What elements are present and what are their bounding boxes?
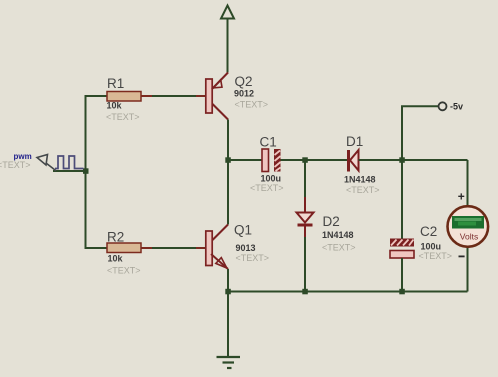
wire D2 bottom lead [304,225,306,237]
svg-text:-5v: -5v [450,102,463,112]
svg-text:<TEXT>: <TEXT> [0,160,31,170]
wire pwm input [53,170,86,172]
wire Q1 collector to mid node [227,160,229,225]
resistor R2 [107,243,206,253]
node C2 bottom junction [399,289,405,295]
svg-text:C2: C2 [420,224,437,239]
transistor Q2 (PNP 9012) [206,73,228,120]
wire C2 bottom lead [401,258,403,292]
svg-text:9013: 9013 [236,243,256,253]
pwm input pin symbol [37,155,56,171]
node mid junction [225,157,231,163]
svg-text:9012: 9012 [234,89,254,99]
wire -5v terminal branch [402,106,438,160]
voltmeter - label [459,255,465,257]
wire D1 to right corner [359,159,468,161]
wire D2 top lead [304,160,306,197]
resistor R1 [107,92,206,102]
node D2 top junction [302,157,308,163]
svg-text:100u: 100u [261,173,282,183]
svg-text:Q1: Q1 [234,223,252,238]
svg-text:<TEXT>: <TEXT> [346,185,380,195]
svg-text:<TEXT>: <TEXT> [107,266,141,276]
transistor Q1 (NPN 9013) [206,225,228,270]
svg-text:<TEXT>: <TEXT> [250,183,284,193]
power symbol (up arrow) [221,6,234,73]
wire Q2 collector to mid node [227,120,229,161]
svg-text:1N4148: 1N4148 [322,230,354,240]
svg-text:<TEXT>: <TEXT> [419,251,453,261]
voltmeter (Volts) [448,206,489,247]
svg-text:C1: C1 [260,135,277,150]
svg-text:<TEXT>: <TEXT> [235,99,269,109]
svg-text:Q2: Q2 [235,74,253,89]
svg-text:D1: D1 [346,134,363,149]
svg-text:<TEXT>: <TEXT> [322,243,356,253]
wire ground stem [227,292,229,358]
node pwm junction [83,168,89,174]
diode D2 (1N4148) [297,213,314,226]
wire C1 to D1 [281,159,348,161]
svg-text:R1: R1 [107,76,124,91]
svg-text:100u: 100u [421,242,442,252]
wire voltmeter bottom branch [467,247,469,292]
svg-text:10k: 10k [107,101,123,111]
svg-text:R2: R2 [107,230,124,245]
wire mid node to C1 [228,159,262,161]
wire left rail up to R1 [86,96,108,171]
wire C2 top lead [401,160,403,239]
wire Q1 emitter to bottom rail [227,269,229,292]
ground [217,357,241,368]
svg-text:D2: D2 [323,214,340,229]
wire voltmeter top branch [467,160,469,207]
capacitor C2 (100u polarized) [390,239,414,259]
terminal -5v circle [439,102,447,110]
node bottom-left junction [225,289,231,295]
svg-text:10k: 10k [108,254,124,264]
pwm square-wave glyph [55,156,84,169]
diode D1 (1N4148) [349,150,359,172]
svg-text:Volts: Volts [460,232,478,242]
wire bottom rail [228,291,468,293]
node -5v / C2 junction [399,157,405,163]
svg-text:+: + [458,190,465,204]
svg-text:1N4148: 1N4148 [344,175,376,185]
capacitor C1 (100u polarized) [262,149,281,172]
svg-text:<TEXT>: <TEXT> [106,112,140,122]
svg-text:<TEXT>: <TEXT> [236,253,270,263]
node D2 bottom junction [302,289,308,295]
wire left rail down to R2 [86,171,108,248]
